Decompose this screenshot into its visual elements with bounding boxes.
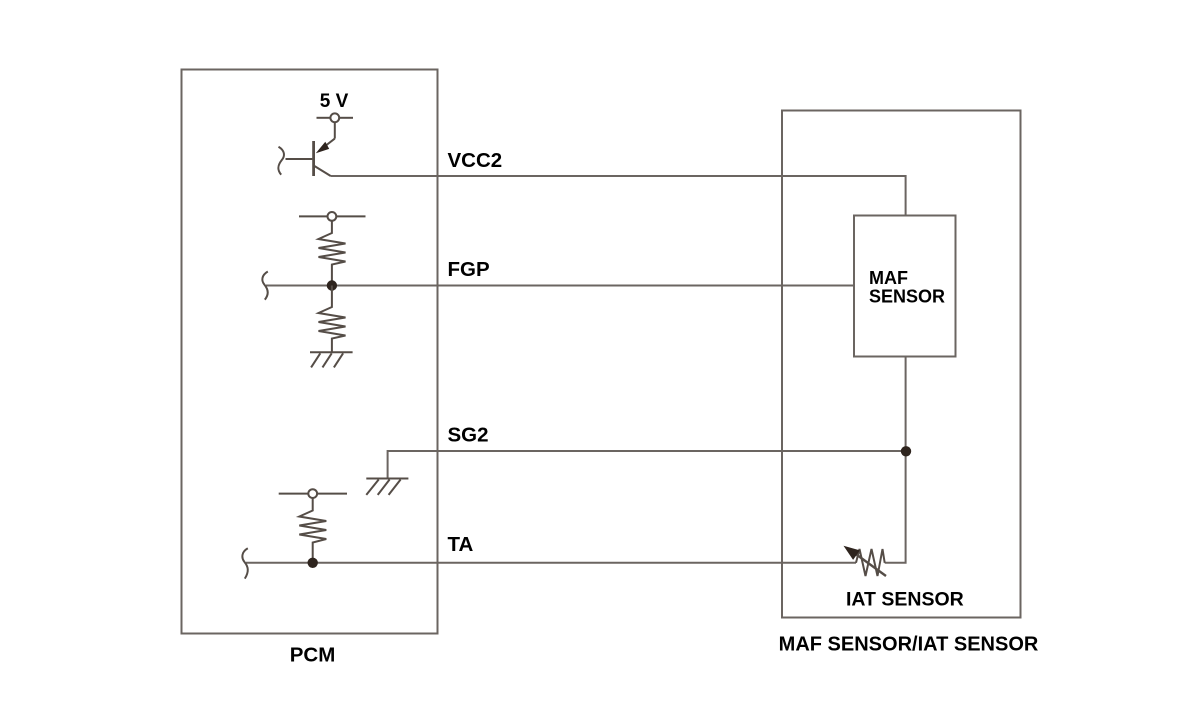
transistor emitter arrowhead	[316, 142, 329, 154]
ground (FGP)	[310, 352, 353, 367]
resistor R1	[319, 221, 346, 286]
resistor R3	[299, 498, 326, 563]
wire VCC2	[331, 176, 906, 216]
svg-text:IAT SENSOR: IAT SENSOR	[846, 589, 964, 611]
svg-text:TA: TA	[448, 533, 474, 556]
svg-text:SG2: SG2	[448, 423, 489, 446]
ground (SG2)	[366, 479, 408, 495]
wire TA	[246, 562, 856, 564]
wire SG2	[388, 451, 906, 479]
PCM box	[182, 70, 438, 634]
node FGP junction	[327, 280, 337, 290]
svg-text:SENSOR: SENSOR	[869, 286, 945, 306]
TA pull-up terminal	[279, 489, 347, 498]
FGP wire break squiggle	[262, 272, 267, 300]
TA wire break squiggle	[242, 548, 247, 578]
5V supply terminal	[317, 113, 354, 122]
svg-text:MAF: MAF	[869, 268, 908, 288]
wire MAF to TA (vertical)	[885, 356, 906, 563]
IAT sensor arrow	[855, 554, 886, 577]
svg-text:5 V: 5 V	[320, 91, 349, 112]
outer box MAF SENSOR/IAT SENSOR	[782, 111, 1021, 618]
wire FGP	[266, 285, 854, 287]
svg-text:MAF SENSOR/IAT SENSOR: MAF SENSOR/IAT SENSOR	[779, 634, 1039, 656]
FGP pull-up terminal	[299, 212, 366, 221]
resistor R2	[319, 286, 346, 353]
thermistor IAT sensor	[856, 549, 885, 576]
node TA junction	[308, 558, 318, 568]
svg-text:FGP: FGP	[448, 258, 490, 281]
base break squiggle	[278, 147, 284, 175]
node SG2/IAT junction	[901, 446, 911, 456]
transistor Q1 (PNP)	[286, 122, 335, 176]
svg-text:VCC2: VCC2	[448, 149, 503, 172]
MAF sensor box	[854, 216, 956, 357]
svg-text:PCM: PCM	[290, 644, 336, 667]
